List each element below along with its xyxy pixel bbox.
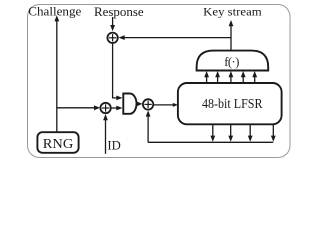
svg-text:Key stream: Key stream	[203, 6, 262, 18]
block RNG	[37, 132, 78, 153]
xor gate XOR4 (LFSR input)	[143, 99, 153, 109]
wire ID up into XOR2 (arrow up)	[103, 114, 108, 154]
xor gate XOR1 (response/keystream)	[107, 33, 117, 43]
wire f output up to Key stream (arrow up)	[229, 20, 234, 51]
svg-text:f(·): f(·)	[224, 55, 239, 69]
and gate	[123, 94, 136, 114]
block 48-bit LFSR	[178, 83, 282, 124]
svg-text:Response: Response	[94, 5, 144, 19]
wire XOR4 output into LFSR (arrow right)	[154, 103, 178, 107]
svg-text:48-bit LFSR: 48-bit LFSR	[202, 97, 263, 112]
svg-text:ID: ID	[107, 139, 120, 153]
wire feedback bottom line up into XOR4 (arrow up)	[146, 110, 151, 142]
wire keystream feedback to XOR1 (arrow left)	[119, 35, 232, 40]
block f(.) filter function	[197, 51, 269, 71]
wire LFSR output 5 up into f (arrow up)	[252, 71, 257, 83]
wire LFSR tap 3 down to feedback line (arrow down)	[248, 124, 253, 142]
wire LFSR tap 2 down to feedback line (arrow down)	[228, 124, 233, 142]
node Response	[94, 5, 144, 19]
wire LFSR tap 4 down to feedback line (arrow down)	[271, 124, 276, 142]
wire LFSR output 3 up into f (arrow up)	[229, 71, 234, 83]
svg-text:RNG: RNG	[43, 136, 74, 151]
wire LFSR feedback bottom horizontal	[148, 141, 273, 143]
svg-text:Challenge: Challenge	[28, 5, 81, 19]
xor gate XOR2 (challenge/ID)	[100, 103, 110, 113]
wire LFSR output 1 up into f (arrow up)	[204, 71, 209, 83]
wire RNG to Challenge (arrow up)	[54, 15, 59, 132]
wire LFSR output 4 up into f (arrow up)	[241, 71, 246, 83]
wire XOR2 output to AND bottom input (arrow right)	[112, 106, 123, 111]
wire Response down into XOR1 (arrow down)	[110, 17, 115, 31]
node Key stream	[203, 6, 262, 18]
wire XOR1 output down then right into AND top input (arrow right)	[113, 44, 123, 101]
node Challenge	[28, 5, 81, 19]
wire LFSR output 2 up into f (arrow up)	[215, 71, 220, 83]
wire LFSR tap 1 down to feedback line (arrow down)	[210, 124, 215, 142]
wire branch RNG line to XOR2 (arrow right)	[57, 105, 100, 110]
node ID	[107, 139, 120, 153]
wire AND output to XOR4 (arrow right)	[137, 102, 143, 107]
